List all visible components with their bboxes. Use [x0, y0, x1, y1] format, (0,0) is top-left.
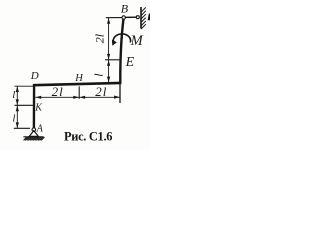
right dimension line (vertical)	[108, 18, 110, 82]
svg-text:l: l	[12, 113, 15, 125]
svg-text:M: M	[130, 33, 144, 49]
pin support A: triangle	[29, 131, 38, 137]
left dim tick at A level	[14, 127, 30, 129]
left dim tick at D level	[15, 85, 34, 87]
link rod from B to wall	[125, 16, 136, 18]
top extension line from B	[106, 17, 122, 19]
left dim arrow up at D	[16, 86, 19, 92]
svg-text:E: E	[125, 55, 135, 70]
wall line	[140, 7, 142, 28]
right dim arrow down at E level	[107, 54, 110, 60]
right dim arrow up at B level	[107, 18, 110, 24]
H extension tick	[78, 86, 80, 98]
ground hatching at A	[24, 137, 45, 140]
wall hatching	[141, 7, 146, 29]
pin support A: circle	[32, 128, 36, 132]
ground line at A	[23, 136, 43, 138]
left dim arrow down at K	[16, 99, 19, 105]
left dimension line (vertical)	[16, 86, 18, 128]
node E tick	[105, 59, 121, 61]
bottom dim arrow right at H	[73, 96, 79, 99]
bottom dimension line (horizontal)	[35, 96, 120, 98]
pin joint at wall	[136, 16, 139, 19]
member D-corner (horizontal beam)	[33, 83, 121, 85]
moment M (curved arrow around right column)	[113, 34, 130, 43]
moment M arrowhead	[112, 40, 117, 46]
svg-text:H: H	[74, 73, 84, 84]
left dim arrow up below K	[16, 106, 19, 112]
bottom dim arrow right at corner	[114, 96, 120, 99]
bottom dim arrow left at D	[36, 96, 42, 99]
svg-text:2l: 2l	[93, 33, 107, 43]
right dim arrow up below E	[107, 60, 110, 66]
page-edge artifact (cut-off mark at right border)	[148, 13, 150, 20]
left dim tick at K level	[15, 104, 33, 106]
svg-text:Рис. С1.6: Рис. С1.6	[64, 130, 112, 144]
svg-text:D: D	[30, 70, 39, 82]
svg-text:A: A	[36, 123, 44, 134]
svg-text:2l: 2l	[95, 84, 107, 99]
svg-text:l: l	[12, 89, 15, 101]
svg-text:2l: 2l	[52, 84, 64, 99]
svg-text:K: K	[34, 102, 43, 113]
right dim arrow down at corner level	[107, 77, 110, 83]
svg-text:B: B	[121, 2, 129, 16]
member AD (left column of frame)	[33, 84, 36, 128]
left dim arrow down at A	[16, 122, 19, 128]
bottom dim arrow left at H	[80, 96, 86, 99]
member corner-B (right column)	[120, 18, 123, 83]
pin joint B (circle)	[122, 16, 125, 19]
corner extension tick	[119, 84, 121, 104]
